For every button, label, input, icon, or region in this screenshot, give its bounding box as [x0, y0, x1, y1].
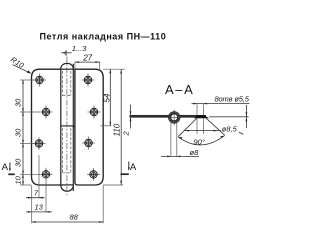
chain arrows [22, 80, 24, 185]
screw hole H8 right row4 [87, 168, 100, 181]
svg-text:A: A [2, 162, 9, 173]
plate top edge across knuckle [61, 68, 74, 70]
dim 8 holes dia 5,5 shelf [192, 94, 250, 104]
countersunk hole section (black) [194, 115, 210, 118]
knuckle column right edge [72, 64, 74, 191]
svg-text:А–А: А–А [165, 82, 194, 97]
svg-text:30: 30 [14, 98, 23, 107]
svg-text:54: 54 [102, 93, 111, 102]
svg-text:110: 110 [113, 123, 122, 136]
section plate right of knuckle (hatched) [180, 115, 197, 117]
plate bottom edge across knuckle [61, 184, 74, 186]
dim 13 [26, 181, 52, 213]
screw hole H5 right row1 [82, 74, 95, 87]
svg-text:27: 27 [82, 54, 92, 63]
svg-text:ø8,5: ø8,5 [222, 124, 238, 133]
svg-text:Петля накладная ПН—110: Петля накладная ПН—110 [40, 32, 167, 42]
end thickness ticks right [246, 105, 248, 128]
svg-text:2: 2 [122, 131, 131, 137]
svg-text:10: 10 [14, 175, 23, 184]
dim dia8 [161, 148, 199, 157]
svg-text:A: A [130, 162, 137, 173]
screw hole H6 right row2 [88, 106, 101, 119]
dim 1...3 [61, 44, 87, 55]
knuckle junction step [61, 125, 75, 128]
svg-text:90°: 90° [194, 138, 205, 147]
svg-text:30: 30 [14, 158, 23, 167]
plate tail right [209, 116, 248, 118]
left plate right edge (knuckle column left edge) [60, 69, 62, 185]
countersink diagonals [178, 118, 197, 137]
screw hole H7 right row3 [82, 137, 95, 150]
dim 90 deg arc [178, 136, 224, 147]
left chain dimension line [22, 80, 24, 185]
section mark A left [2, 162, 15, 174]
dia8 extension lines [170, 123, 172, 157]
hole extension lines down [196, 119, 198, 134]
left plate outline [32, 69, 61, 185]
svg-text:13: 13 [35, 202, 44, 211]
screw hole H2 left row2 [40, 106, 53, 119]
screw hole H3 left row3 [33, 137, 46, 150]
hinge axis centerline [66, 57, 68, 197]
dim 7 [26, 155, 45, 223]
svg-text:ø8: ø8 [190, 148, 200, 157]
svg-text:30: 30 [14, 128, 23, 137]
knuckle section circle [166, 109, 183, 127]
dim 110 [103, 69, 123, 185]
pin hidden lines lower [63, 128, 71, 173]
dim 88 [32, 186, 104, 224]
svg-text:88: 88 [70, 212, 79, 221]
dim dia8,5 [185, 124, 244, 134]
dim R10 leader [9, 55, 31, 74]
hole extension lines up [196, 104, 198, 115]
section plate left (hatched) [130, 115, 169, 117]
dim 54 [101, 69, 126, 126]
svg-text:1...3: 1...3 [72, 44, 87, 53]
knuckle bottom dome [61, 185, 74, 191]
dim 27 [75, 54, 100, 69]
screw hole H1 left row1 [33, 74, 46, 87]
screw hole H4 left row4 [40, 168, 53, 181]
svg-text:8отв ø5,5: 8отв ø5,5 [215, 94, 250, 103]
right plate outline [75, 69, 103, 185]
thickness dim 2 [122, 105, 132, 137]
section mark A right [121, 162, 137, 175]
left chain extension lines [20, 80, 40, 185]
pin hidden lines upper [63, 71, 71, 96]
knuckle top dome [61, 63, 74, 69]
